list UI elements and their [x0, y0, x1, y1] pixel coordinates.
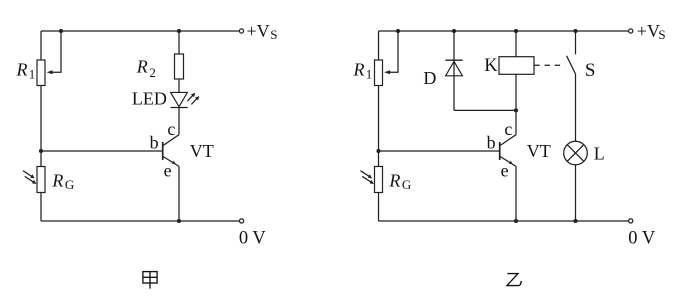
node wiper tap junction right: [396, 29, 400, 33]
wire switch branch upper: [575, 31, 577, 54]
light arrow 1 into RG right: [361, 171, 373, 179]
emitter arrowhead: [172, 161, 176, 165]
emitter arrowhead right: [509, 161, 513, 165]
transistor VT collector lead: [163, 135, 179, 146]
wire top rail right circuit: [379, 30, 629, 32]
label 甲 (drawn glyph): [143, 272, 157, 289]
svg-text:G: G: [65, 177, 74, 192]
node R2 branch tap: [177, 29, 181, 33]
switch S blade: [567, 56, 576, 74]
resistor R1 right (potentiometer body): [375, 60, 383, 86]
wire R2 to LED: [178, 79, 180, 92]
lamp L circle: [564, 141, 588, 165]
diode D triangle: [446, 61, 463, 75]
label 乙 (drawn glyph): [507, 274, 521, 286]
svg-text:R: R: [388, 170, 400, 190]
wire emitter vertical right: [515, 166, 517, 221]
svg-text:L: L: [594, 143, 605, 163]
svg-text:VT: VT: [527, 141, 551, 161]
wire top rail left circuit: [41, 30, 239, 32]
resistor R1 (potentiometer body): [37, 60, 45, 86]
node emitter bottom junction: [177, 219, 181, 223]
transistor VT collector lead right: [500, 135, 516, 146]
svg-text:c: c: [504, 119, 512, 139]
LED emission arrow 2: [191, 96, 199, 104]
wire base horizontal: [41, 150, 162, 152]
svg-text:R: R: [16, 59, 28, 79]
wire LED to collector: [178, 108, 180, 135]
node diode-relay junction: [514, 108, 518, 112]
svg-text:VT: VT: [190, 141, 214, 161]
node diode branch tap: [452, 29, 456, 33]
svg-text:S: S: [585, 60, 596, 81]
terminal +Vs right: [629, 29, 633, 33]
svg-text:e: e: [164, 160, 172, 180]
svg-text:e: e: [501, 160, 509, 180]
transistor VT base bar right: [499, 142, 501, 160]
node wiper tap junction: [59, 29, 63, 33]
node switch branch tap: [573, 29, 577, 33]
wire relay branch vertical: [515, 31, 517, 135]
svg-text:b: b: [150, 133, 159, 153]
wire switch to lamp: [575, 74, 577, 141]
diode D cathode bar: [445, 59, 462, 61]
wiper arrowhead R1 right: [384, 70, 390, 74]
wire emitter vertical: [178, 166, 180, 221]
photoresistor RG body: [37, 167, 45, 193]
resistor R2 body: [175, 54, 184, 79]
relay coil K body: [499, 57, 534, 75]
transistor VT emitter lead right: [500, 157, 516, 167]
node emitter bottom junction right: [514, 219, 518, 223]
transistor VT base bar: [162, 142, 164, 160]
svg-text:0 V: 0 V: [628, 228, 656, 248]
wire bottom rail right circuit: [379, 220, 629, 222]
svg-text:0 V: 0 V: [239, 228, 267, 248]
node relay branch tap: [514, 29, 518, 33]
LED emission arrow 1: [187, 93, 195, 101]
transistor VT emitter lead: [163, 157, 179, 167]
wire wiper of R1: [52, 31, 61, 72]
LED triangle: [171, 92, 188, 106]
lamp L cross: [567, 145, 584, 162]
svg-text:K: K: [484, 56, 498, 76]
svg-text:LED: LED: [132, 88, 167, 108]
wire base horizontal right: [379, 150, 500, 152]
wire left vertical branch right circuit: [378, 31, 380, 221]
wire bottom rail left circuit: [41, 220, 239, 222]
svg-text:R: R: [353, 59, 365, 79]
svg-text:c: c: [167, 119, 175, 139]
light arrow 2 into RG right: [362, 176, 374, 184]
wire diode branch lower: [454, 109, 516, 111]
wire diode branch upper: [453, 31, 455, 110]
wire R2 branch upper: [178, 31, 180, 54]
svg-text:G: G: [402, 177, 411, 192]
svg-text:2: 2: [149, 65, 156, 80]
svg-text:1: 1: [366, 66, 373, 81]
terminal 0V right: [629, 219, 633, 223]
svg-text:R: R: [51, 170, 63, 190]
dashed mechanical link K to S: [534, 64, 565, 66]
svg-text:1: 1: [29, 66, 36, 81]
svg-text:R: R: [136, 56, 148, 76]
light arrow 2 into RG: [25, 176, 37, 184]
svg-text:+V: +V: [247, 21, 270, 41]
wiper arrowhead R1: [47, 70, 53, 74]
light arrow 1 into RG: [23, 171, 35, 179]
photoresistor RG body right: [375, 167, 383, 193]
LED cathode bar: [171, 107, 188, 109]
terminal +Vs left: [239, 29, 243, 33]
svg-text:S: S: [658, 27, 665, 42]
node lamp bottom junction: [573, 219, 577, 223]
node base tee junction right: [376, 149, 380, 153]
wire wiper of R1 right: [389, 31, 398, 72]
svg-text:D: D: [423, 68, 436, 88]
svg-text:b: b: [487, 133, 496, 153]
node base tee junction: [39, 149, 43, 153]
wire left vertical branch: [40, 31, 42, 221]
wire lamp to bottom rail: [575, 165, 577, 221]
svg-text:S: S: [270, 27, 277, 42]
svg-text:+V: +V: [637, 21, 660, 41]
terminal 0V left: [240, 219, 244, 223]
